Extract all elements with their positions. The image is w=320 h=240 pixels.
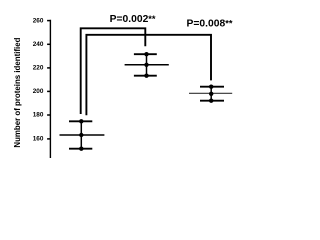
group 2 top cap bbox=[134, 53, 157, 55]
group 3 data point top bbox=[209, 85, 213, 89]
svg-text:240: 240 bbox=[33, 41, 44, 48]
group 2 data point bottom bbox=[144, 74, 148, 78]
group 1 bottom cap bbox=[69, 148, 92, 150]
group 3 data point middle bbox=[209, 92, 213, 96]
group 3 top cap bbox=[200, 86, 224, 88]
group 3 error bar vertical bbox=[210, 87, 212, 101]
svg-text:220: 220 bbox=[33, 65, 44, 72]
group 2 data point top bbox=[144, 52, 148, 56]
significance bracket P=0.002 (group1 to group2) bbox=[81, 28, 146, 114]
y-axis tick 260 bbox=[47, 20, 50, 22]
svg-text:200: 200 bbox=[33, 88, 44, 95]
group 3 mean line bbox=[189, 92, 232, 94]
svg-text:180: 180 bbox=[33, 112, 44, 119]
group 1 top cap bbox=[69, 120, 92, 122]
y-axis tick 180 bbox=[47, 114, 50, 116]
svg-text:P=0.008**: P=0.008** bbox=[187, 18, 233, 29]
group 1 data point bottom bbox=[79, 147, 83, 151]
svg-text:260: 260 bbox=[33, 17, 44, 24]
group 1 data point middle bbox=[79, 133, 83, 137]
group 1 data point top bbox=[79, 119, 83, 123]
y-axis tick 220 bbox=[47, 67, 50, 69]
group 1 error bar vertical bbox=[80, 121, 82, 148]
group 1 mean line bbox=[60, 134, 105, 136]
svg-text:Number of proteins identified: Number of proteins identified bbox=[13, 37, 22, 147]
y-axis tick 240 bbox=[47, 43, 50, 45]
group 2 bottom cap bbox=[134, 75, 157, 77]
svg-text:P=0.002**: P=0.002** bbox=[110, 14, 156, 25]
y-axis tick 200 bbox=[47, 90, 50, 92]
group 2 error bar vertical bbox=[146, 54, 148, 75]
y-axis line bbox=[49, 20, 51, 158]
group 3 bottom cap bbox=[200, 100, 224, 102]
significance bracket P=0.008 (group1 to group3) bbox=[86, 35, 211, 115]
svg-text:160: 160 bbox=[33, 136, 44, 143]
group 2 mean line bbox=[125, 64, 169, 66]
group 3 data point bottom bbox=[209, 99, 213, 103]
group 2 data point middle bbox=[144, 63, 148, 67]
y-axis tick 160 bbox=[47, 138, 50, 140]
